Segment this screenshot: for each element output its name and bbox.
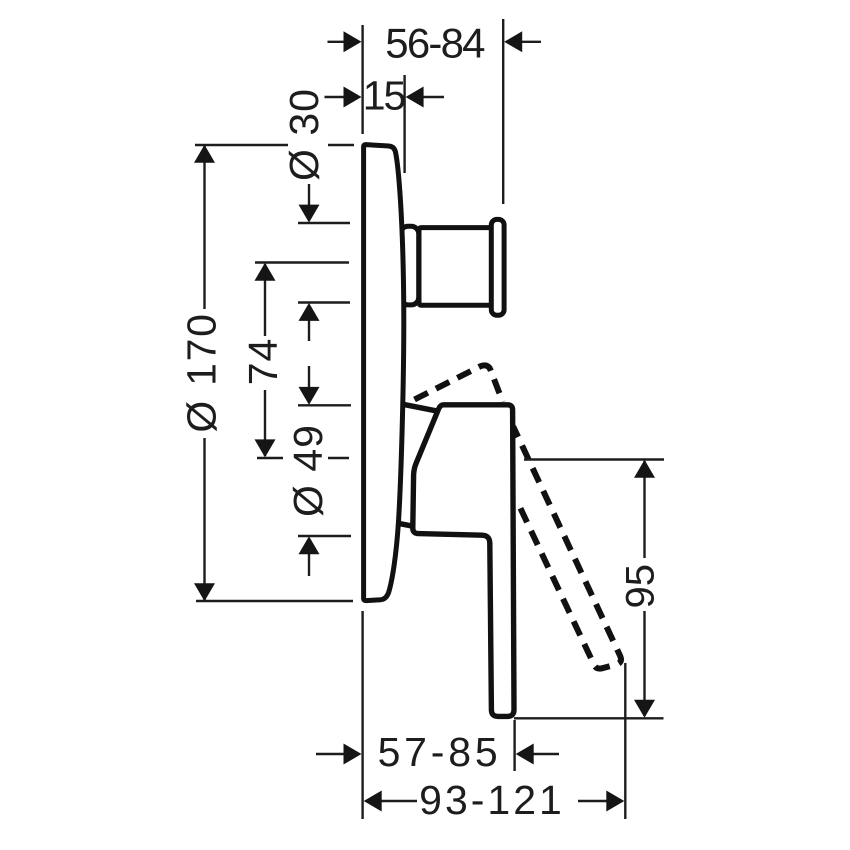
ext line wall/plate back (top) — [361, 25, 363, 134]
Ø49 upper arrow (points down) — [299, 387, 320, 405]
sleeve top edge — [403, 404, 439, 411]
ext line plate front (15) — [403, 75, 405, 173]
74 bottom arrow — [255, 439, 276, 457]
knob stem (flange at plate) — [401, 226, 419, 305]
56-84 left arrow — [344, 31, 362, 52]
svg-text:Ø 30: Ø 30 — [281, 88, 327, 181]
sleeve bottom edge — [398, 523, 414, 526]
knob body — [419, 228, 492, 306]
svg-text:56-84: 56-84 — [385, 20, 485, 67]
74 ext lines — [255, 261, 349, 263]
Ø170 bottom arrow — [194, 583, 215, 601]
93-121 right arrow — [606, 791, 624, 812]
svg-text:93-121: 93-121 — [419, 777, 565, 823]
handle base and lever (solid) — [413, 405, 514, 717]
95 bottom arrow — [634, 700, 655, 718]
74 top arrow — [255, 263, 276, 281]
Ø49 arrow stems — [308, 366, 310, 388]
15 left arrow — [344, 87, 362, 108]
74 dim line — [264, 264, 266, 336]
95 ext lines — [524, 458, 664, 460]
escutcheon plate (side view) — [364, 145, 404, 601]
dim 15 tails — [325, 96, 346, 98]
Ø170 dim line — [203, 146, 205, 309]
Ø30 lower arrow (points up) — [299, 303, 320, 321]
Ø30 ext lines — [298, 222, 350, 224]
knob end cap — [491, 219, 504, 315]
Ø49 ext lines — [298, 404, 351, 406]
ext line knob front (56-84) — [502, 19, 504, 204]
93-121 left arrow — [364, 791, 382, 812]
57-85 left arrow — [344, 744, 362, 765]
svg-text:57-85: 57-85 — [378, 729, 502, 775]
Ø30 arrow stems — [308, 184, 310, 206]
dashed lever segment upper (handle rotated position, near plate) — [415, 365, 503, 402]
Ø170 top arrow — [194, 145, 215, 163]
svg-text:95: 95 — [619, 564, 663, 609]
Ø49 lower arrow (points up) — [299, 536, 320, 554]
Ø170 ext lines — [195, 144, 288, 146]
svg-text:15: 15 — [363, 73, 406, 119]
bottom ext lines — [361, 611, 363, 819]
95 dim line — [643, 461, 645, 558]
svg-text:74: 74 — [240, 338, 286, 386]
svg-text:Ø 170: Ø 170 — [179, 312, 225, 432]
dim 93-121 line segments — [380, 800, 417, 802]
15 right arrow — [406, 87, 424, 108]
57-85 right arrow — [516, 744, 534, 765]
dim 57-85 tails — [316, 753, 345, 755]
56-84 right arrow — [504, 31, 522, 52]
dashed lever right edge lower — [513, 427, 621, 669]
95 top arrow — [634, 460, 655, 478]
Ø30 upper arrow (points down) — [299, 205, 320, 223]
dim 56-84 tails — [328, 41, 346, 43]
svg-text:Ø 49: Ø 49 — [285, 424, 331, 517]
